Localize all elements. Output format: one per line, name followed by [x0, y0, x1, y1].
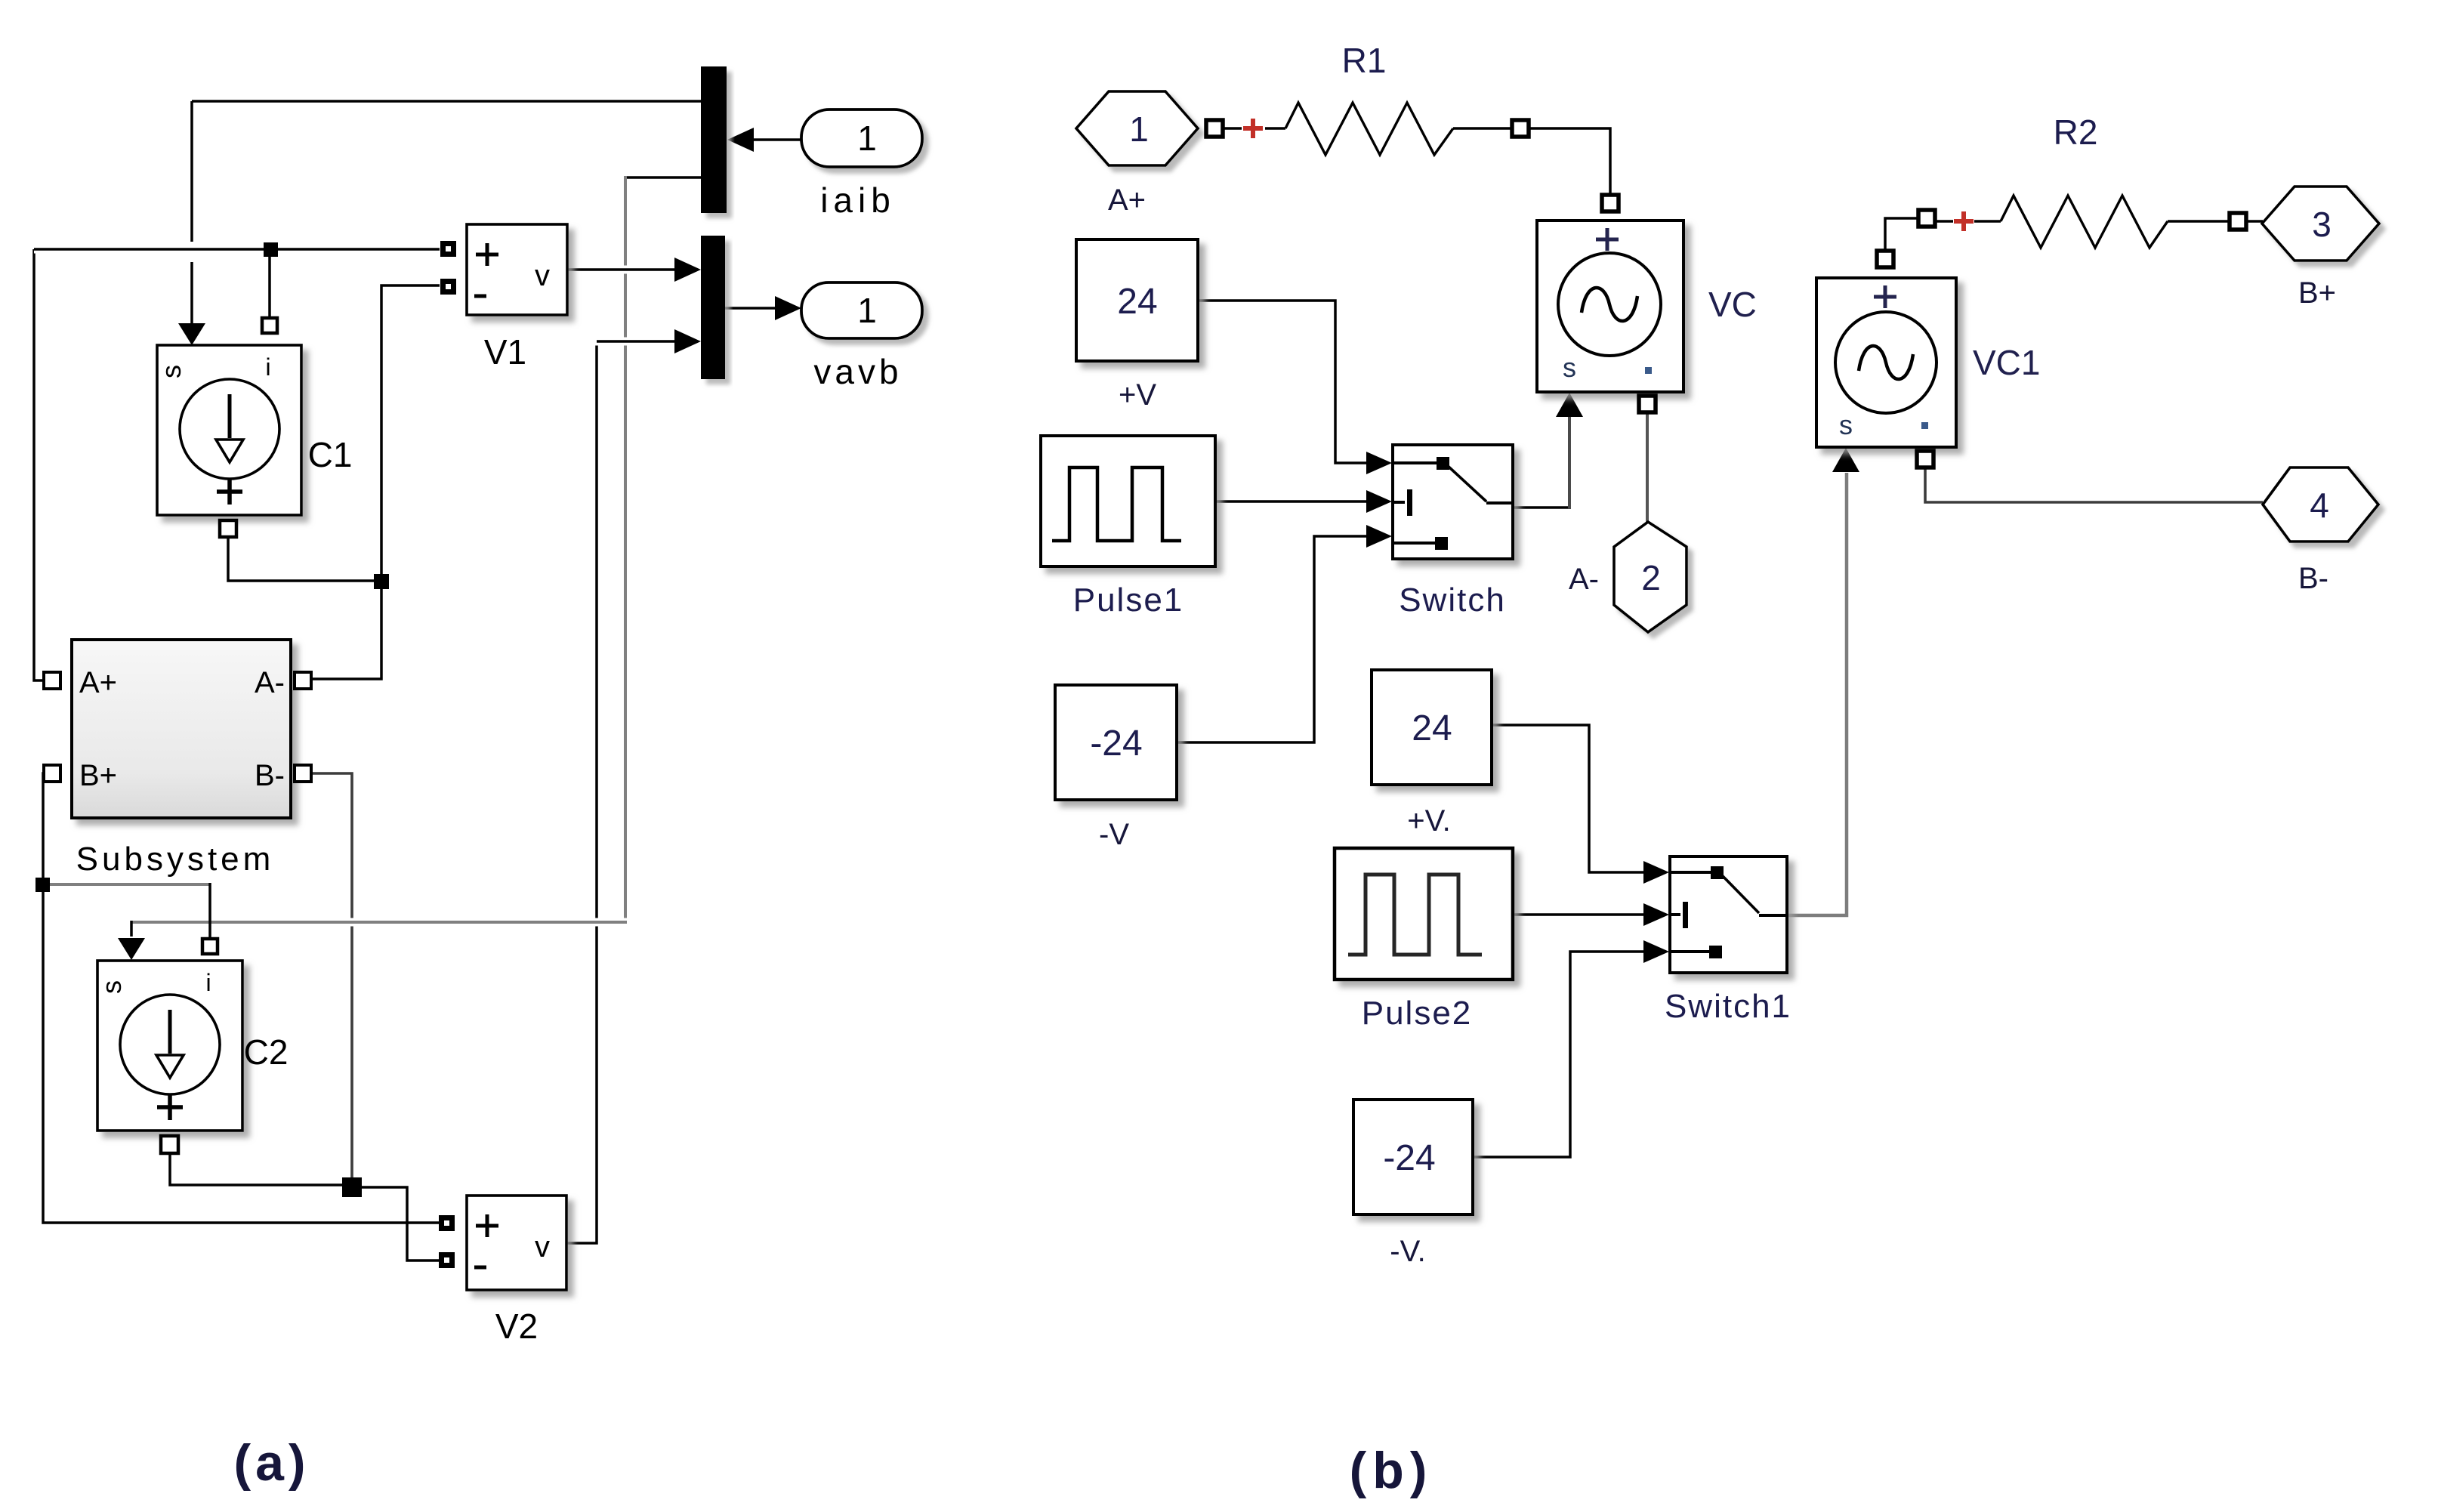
wire Pulse2 to Switch1 in2: [1513, 913, 1646, 916]
arrowhead Switch in2: [1366, 490, 1392, 513]
svg-text:s: s: [1839, 409, 1853, 440]
wire demux out2 short black stub: [624, 176, 701, 179]
port VC top: [1602, 195, 1619, 211]
wire C2 + (bottom) to junction: [170, 1153, 349, 1185]
wire Switch out to VC s: [1513, 506, 1571, 509]
junction node C1+/V1-/A-: [374, 574, 389, 589]
inport hexagon 1 (A+): [1076, 91, 1198, 165]
svg-text:V2: V2: [495, 1307, 538, 1346]
svg-text:1: 1: [857, 119, 877, 158]
wire Switch1 out to VC1 s (long gray): [1787, 473, 1847, 915]
svg-text:s: s: [1563, 352, 1576, 383]
arrowhead into VC s: [1556, 393, 1583, 417]
svg-text:s: s: [96, 980, 127, 994]
svg-text:v: v: [535, 259, 550, 292]
svg-text:-V.: -V.: [1390, 1235, 1425, 1268]
port A+: [44, 672, 60, 689]
wire A+ vertical from top node: [34, 249, 44, 680]
wire demux out1 to C1 s (top run): [192, 100, 701, 103]
inport oval iaib: [801, 110, 922, 167]
constant +V (24): [1076, 239, 1198, 361]
svg-text:B+: B+: [79, 759, 117, 792]
wire R2 to hex B+: [2168, 220, 2230, 223]
arrowhead Switch in1: [1366, 452, 1392, 474]
wire R1 to VC +: [1453, 127, 1512, 130]
svg-text:v: v: [535, 1230, 550, 1264]
port V2 +: [439, 1215, 455, 1231]
wire V2 v output up to mux2 lower input: [566, 341, 597, 1243]
outport hexagon 4 (B-): [2263, 467, 2378, 542]
svg-text:Pulse1: Pulse1: [1073, 582, 1184, 619]
port V1 -: [440, 279, 456, 295]
port VC - (bottom right): [1639, 396, 1656, 412]
svg-text:A-: A-: [255, 666, 285, 699]
arrowhead Switch1 in2: [1643, 903, 1669, 926]
arrowhead into vavb: [775, 296, 801, 320]
wire R2 left segments: [1935, 220, 1953, 223]
wire mux2 output to vavb: [725, 307, 778, 310]
arrowhead into demux from iaib: [727, 128, 754, 152]
voltage sensor V2: [467, 1196, 566, 1290]
arrowhead into mux2 from V2: [674, 329, 701, 353]
svg-text:24: 24: [1412, 708, 1452, 748]
wire node to V1 + input (with casing over vertical): [34, 245, 440, 254]
port C1 + (bottom): [220, 520, 236, 537]
resistor R1: [1285, 103, 1453, 155]
svg-text:1: 1: [1129, 110, 1149, 149]
svg-text:24: 24: [1117, 282, 1157, 322]
switch block Switch1: [1670, 856, 1787, 973]
svg-text:(b): (b): [1350, 1442, 1433, 1499]
wire vertical drop to C1 s (with hop gap): [190, 101, 193, 242]
controlled voltage source VC: [1537, 221, 1683, 392]
wire +V. to Switch1 in1: [1492, 725, 1646, 872]
svg-text:C1: C1: [308, 435, 353, 474]
svg-text:VC: VC: [1708, 285, 1757, 324]
svg-text:i: i: [265, 353, 270, 381]
red + polarity mark R1: [1243, 119, 1263, 138]
outport hexagon 2 (A-): [1614, 522, 1687, 632]
subsystem block: [72, 640, 291, 818]
arrowhead into mux2 from V1: [674, 258, 701, 282]
port C2 + (bottom): [161, 1136, 178, 1153]
port R1 right: [1512, 120, 1529, 137]
svg-text:R1: R1: [1342, 41, 1387, 80]
controlled voltage source VC1: [1816, 278, 1956, 447]
port after hex1: [1206, 120, 1223, 137]
svg-text:VC1: VC1: [1973, 343, 2040, 382]
svg-text:V1: V1: [484, 332, 526, 372]
svg-text:B-: B-: [2298, 562, 2328, 595]
wire C1 + (bottom) to junction: [228, 536, 381, 581]
svg-text:Switch1: Switch1: [1665, 988, 1791, 1025]
svg-text:B+: B+: [2298, 276, 2336, 310]
svg-text:vavb: vavb: [813, 352, 902, 391]
wire V1 v output to mux2 upper input: [567, 266, 675, 274]
svg-text:2: 2: [1641, 558, 1661, 597]
port R2 right: [2230, 213, 2246, 230]
wire -V to Switch in3: [1177, 536, 1369, 742]
wire Pulse1 to Switch in2: [1215, 500, 1369, 503]
port B-: [295, 765, 311, 782]
arrowhead into VC1 s: [1832, 448, 1859, 472]
wire B- to junction node: [311, 773, 352, 1183]
svg-text:A+: A+: [79, 666, 117, 699]
svg-text:C2: C2: [244, 1032, 289, 1072]
constant -V. (-24): [1353, 1100, 1473, 1214]
svg-text:B-: B-: [255, 759, 285, 792]
wire -V. to Switch1 in3: [1473, 952, 1646, 1157]
wire stub into C2 s arrow: [130, 921, 133, 937]
arrowhead into C1 s: [178, 323, 205, 345]
svg-text:1: 1: [857, 291, 877, 330]
junction node B+ tap: [35, 878, 50, 892]
junction node B-/C2+/V2-: [342, 1177, 362, 1197]
svg-text:Switch: Switch: [1399, 582, 1506, 619]
svg-text:-V: -V: [1099, 818, 1129, 851]
port A-: [295, 672, 311, 689]
svg-text:R2: R2: [2054, 113, 2098, 152]
svg-text:i: i: [205, 969, 211, 996]
wire B+ down to V2 + input: [43, 773, 439, 1223]
svg-text:(a): (a): [233, 1434, 310, 1492]
port R2 left: [1918, 210, 1935, 227]
svg-text:s: s: [156, 365, 187, 378]
wire hex A+ to R1: [1223, 127, 1242, 130]
current source C2: [97, 961, 242, 1131]
arrowhead Switch1 in1: [1643, 861, 1669, 884]
current source C1: [157, 345, 301, 515]
wire VC - to hex A-: [1646, 412, 1649, 523]
demux (black bar, fed from iaib): [701, 66, 727, 213]
svg-text:Subsystem: Subsystem: [76, 841, 275, 878]
wire iaib into demux: [752, 138, 802, 141]
wire demux out2 gray vertical: [624, 176, 627, 922]
red + polarity mark R2: [1954, 211, 1974, 231]
voltage sensor V1: [467, 224, 567, 315]
wire V1 - and subsystem A- to junction: [311, 285, 440, 679]
outport oval vavb: [801, 282, 922, 338]
constant +V. (24): [1372, 670, 1492, 785]
wire VC1 + up to R2: [1885, 218, 1918, 251]
constant -V (-24): [1055, 685, 1177, 800]
port C2 i (top right): [202, 939, 218, 954]
svg-text:Pulse2: Pulse2: [1362, 995, 1473, 1032]
wire junction stub down to C1 i port: [268, 249, 271, 319]
port B+: [44, 765, 60, 782]
outport hexagon 3 (B+): [2262, 187, 2379, 261]
resistor R2: [2001, 196, 2168, 248]
wire VC1 - to hex B-: [1925, 467, 2263, 502]
arrowhead Switch in3: [1366, 525, 1392, 548]
wire V2 v upper horizontal into mux2 (casing): [580, 338, 675, 346]
arrowhead into C2 s: [118, 938, 145, 960]
svg-text:-24: -24: [1090, 724, 1142, 764]
pulse generator Pulse1: [1041, 436, 1215, 566]
port V2 -: [439, 1252, 455, 1268]
svg-text:+V: +V: [1119, 378, 1156, 412]
wire +V to Switch in1: [1198, 301, 1369, 463]
pulse generator Pulse2: [1335, 848, 1513, 980]
svg-text:iaib: iaib: [820, 181, 896, 220]
wire stub down to C2 i port: [208, 883, 211, 939]
port V1 +: [440, 241, 456, 257]
port VC1 - (bottom right): [1917, 451, 1933, 467]
svg-text:A+: A+: [1108, 184, 1146, 217]
svg-text:4: 4: [2310, 486, 2329, 525]
switch block Switch: [1393, 445, 1513, 559]
svg-text:+V.: +V.: [1407, 804, 1450, 838]
port C1 i (top right): [262, 318, 277, 333]
mux (black bar, to vavb): [701, 236, 725, 379]
wire junction to V2 - input: [355, 1187, 439, 1261]
svg-text:-24: -24: [1383, 1138, 1435, 1178]
svg-text:3: 3: [2312, 205, 2332, 244]
svg-text:A-: A-: [1569, 563, 1599, 596]
port VC1 top: [1877, 251, 1893, 267]
junction node at C1 i tap: [264, 242, 278, 257]
wire junction to C2 i (gray): [48, 883, 210, 886]
wire demux out2 gray horizontal to C2 s: [131, 918, 627, 927]
arrowhead Switch1 in3: [1643, 940, 1669, 963]
